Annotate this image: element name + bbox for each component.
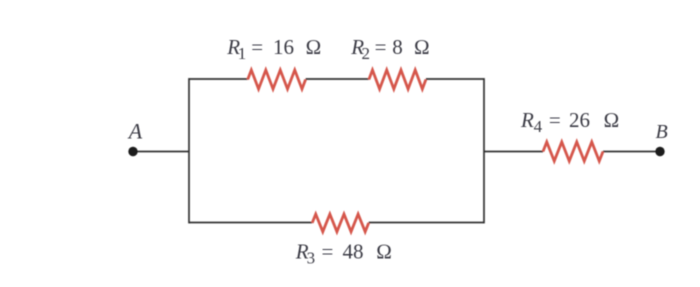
- label R4 = 26 ohm: [520, 108, 620, 136]
- svg-text:B: B: [656, 121, 668, 143]
- svg-text:Ω: Ω: [305, 35, 321, 59]
- svg-text:=: =: [375, 35, 387, 59]
- resistor R2: [369, 70, 426, 89]
- svg-text:=: =: [251, 35, 263, 59]
- svg-text:Ω: Ω: [414, 35, 430, 59]
- wire: left vertical branch wire: [188, 78, 190, 223]
- node A terminal dot: [128, 147, 137, 156]
- node B terminal dot: [655, 147, 664, 156]
- label R3 = 48 ohm: [295, 239, 392, 267]
- svg-text:3: 3: [307, 248, 316, 267]
- wire: top branch left segment: [189, 78, 248, 80]
- resistor R4: [543, 142, 603, 161]
- wire: R4 to node B: [603, 151, 660, 153]
- svg-text:1: 1: [238, 44, 247, 63]
- svg-text:Ω: Ω: [376, 239, 392, 263]
- label R1 = 16 ohm: [226, 35, 321, 63]
- wire: right vertical branch wire: [483, 78, 485, 223]
- label R2 = 8 ohm: [350, 35, 430, 63]
- svg-text:4: 4: [534, 117, 543, 136]
- resistor R1: [248, 70, 306, 89]
- svg-text:48: 48: [343, 239, 364, 263]
- svg-text:2: 2: [362, 44, 371, 63]
- svg-text:16: 16: [273, 35, 294, 59]
- resistor R3: [312, 214, 369, 232]
- svg-text:=: =: [322, 239, 334, 263]
- svg-text:8: 8: [392, 35, 403, 59]
- wire: right junction to R4: [484, 151, 543, 153]
- svg-text:Ω: Ω: [603, 108, 619, 132]
- svg-text:A: A: [127, 119, 143, 144]
- wire: top branch right segment: [426, 78, 484, 80]
- wire: top branch middle segment (between R1 and R2): [306, 78, 369, 80]
- svg-text:R: R: [520, 108, 534, 132]
- svg-text:=: =: [549, 108, 561, 132]
- wire: bottom branch left segment: [189, 222, 312, 224]
- wire: bottom branch right segment: [369, 222, 484, 224]
- svg-text:26: 26: [569, 108, 590, 132]
- wire: node A lead to left junction: [133, 151, 189, 153]
